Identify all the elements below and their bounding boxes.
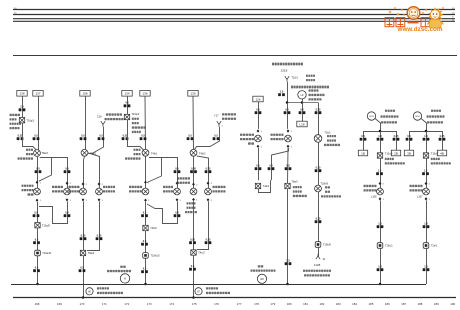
svg-text:2.5: 2.5 xyxy=(20,106,24,109)
connector T4b plug note (CJK) xyxy=(134,149,141,151)
wire T10b/10 to rail xyxy=(145,258,147,284)
svg-text:2B: 2B xyxy=(394,151,398,155)
wire T10c/7 to lamp xyxy=(426,158,428,188)
wire from box 138 xyxy=(22,96,24,117)
watermark sparkles xyxy=(388,6,445,16)
connector T10q plug location note (CJK) xyxy=(10,114,21,116)
svg-text:138: 138 xyxy=(19,92,24,96)
wire from box 126 xyxy=(258,102,260,129)
svg-text:126: 126 xyxy=(255,97,260,101)
svg-text:H: H xyxy=(124,277,126,281)
svg-text:0.5: 0.5 xyxy=(34,134,38,137)
rear right reading lamp L107 xyxy=(423,188,430,195)
wire junction to lamp row xyxy=(287,103,289,129)
svg-text:0.5: 0.5 xyxy=(214,134,218,137)
wire lamp W6 down xyxy=(37,202,39,223)
svg-text:0.35: 0.35 xyxy=(394,135,399,138)
svg-text:0.5: 0.5 xyxy=(80,266,84,269)
branch stub crossover C xyxy=(147,158,162,183)
svg-text:185: 185 xyxy=(369,302,374,306)
contact 2 above lamp L106 xyxy=(379,182,382,185)
drop wire F1 right xyxy=(396,131,398,150)
svg-text:0.35: 0.35 xyxy=(190,238,195,241)
bus wire 30 (top supply rail) xyxy=(13,9,455,11)
ground connection 86 circle xyxy=(86,288,93,295)
bottom frame line xyxy=(13,297,456,299)
svg-text:1.5: 1.5 xyxy=(424,135,428,138)
svg-text:1.5: 1.5 xyxy=(280,90,284,93)
drop wire F2 right xyxy=(442,131,444,150)
stub lamp L9 to bar xyxy=(302,99,304,103)
wire lamp W9 down xyxy=(83,201,85,250)
wire lamp W10 down xyxy=(145,202,147,226)
svg-text:0.35: 0.35 xyxy=(316,166,321,169)
lamp W12 upper note (CJK) xyxy=(177,177,190,179)
wire lamp W11 to main column xyxy=(147,201,178,223)
wire from box 136 xyxy=(144,96,147,149)
J128 note line1 (CJK) xyxy=(303,270,331,272)
svg-text:0.5: 0.5 xyxy=(256,164,260,167)
svg-text:T4b/3: T4b/3 xyxy=(199,152,206,155)
contact 1 above lamp W6 xyxy=(36,181,39,184)
svg-text:0.35: 0.35 xyxy=(206,238,211,241)
svg-text:0.5: 0.5 xyxy=(175,167,179,170)
svg-text:W14: W14 xyxy=(415,116,420,118)
terminal box 4B xyxy=(437,150,446,156)
svg-text:T16/1: T16/1 xyxy=(292,76,299,79)
switch F2 name text (CJK) xyxy=(103,186,115,188)
connector T10b/9 note (CJK) xyxy=(325,186,330,188)
connector T10c note (CJK) xyxy=(385,158,394,160)
wire switch F2 to T8a/4 xyxy=(87,201,100,250)
svg-text:178: 178 xyxy=(254,302,259,306)
wire T4c/3 to ground bus xyxy=(193,255,195,297)
junction dot 2 xyxy=(301,101,304,104)
lamp W3 note (CJK) xyxy=(258,265,264,267)
wire from box 137 xyxy=(38,96,40,150)
terminal box 3B xyxy=(404,150,413,156)
drop wire F2 mid xyxy=(426,131,428,153)
wire T10b/5 to open end xyxy=(318,247,320,256)
svg-text:T2e/1: T2e/1 xyxy=(431,245,438,248)
svg-text:T4a/1: T4a/1 xyxy=(263,185,270,188)
wire lamp L106 down xyxy=(380,201,382,243)
contact 2 above lamp W7 xyxy=(66,182,69,185)
svg-text:171: 171 xyxy=(102,302,107,306)
contact 2 above lamp W11 xyxy=(176,182,179,185)
drop wire F1 mid xyxy=(380,131,382,153)
svg-text:187: 187 xyxy=(401,302,406,306)
connector T10c/5 xyxy=(377,153,382,158)
junction on rail xyxy=(36,283,39,286)
svg-text:T10b/5: T10b/5 xyxy=(323,244,331,247)
svg-text:0.5: 0.5 xyxy=(65,167,69,170)
svg-text:182: 182 xyxy=(319,302,324,306)
wire F6 straight down xyxy=(287,148,290,183)
rear left reading lamp L106 xyxy=(377,188,384,195)
svg-text:175: 175 xyxy=(192,302,197,306)
front left door contact switch F2 xyxy=(96,188,103,195)
svg-text:0.5: 0.5 xyxy=(35,266,39,269)
wire from T10q/1 to T8a/2 xyxy=(23,123,37,150)
connector T10q/1 xyxy=(19,118,24,123)
svg-text:0.35: 0.35 xyxy=(440,135,445,138)
contact 1 below switch F6 xyxy=(287,145,290,148)
svg-text:177: 177 xyxy=(237,302,242,306)
connector T16 location note (CJK) xyxy=(291,86,329,89)
lamp L106 name (CJK) xyxy=(364,185,377,187)
svg-text:www.dzsc.com: www.dzsc.com xyxy=(397,26,443,33)
svg-text:186: 186 xyxy=(385,302,390,306)
wire fork from F6 xyxy=(272,148,289,180)
svg-text:T10c/5: T10c/5 xyxy=(385,152,393,155)
terminal box 1B xyxy=(358,150,367,156)
svg-text:1.5: 1.5 xyxy=(378,222,382,225)
svg-text:0.35: 0.35 xyxy=(97,234,102,237)
wire T10b/9 down xyxy=(318,192,320,242)
bus wire X xyxy=(13,18,455,20)
svg-text:3B: 3B xyxy=(407,151,411,155)
front left door warning lamp W6 xyxy=(34,188,41,195)
svg-text:4B: 4B xyxy=(440,151,444,155)
svg-text:T8a/2: T8a/2 xyxy=(42,152,49,155)
ground wire rail xyxy=(11,284,426,286)
svg-text:T10c/7: T10c/7 xyxy=(431,152,439,155)
terminal box 134 xyxy=(122,91,132,97)
contact 1 below lamp W7 xyxy=(66,198,69,201)
watermark mascot figure xyxy=(427,7,443,28)
contact 1 above switch F3 xyxy=(207,182,210,185)
servo motor V53 circle xyxy=(314,135,322,143)
distribution bar F1 xyxy=(363,131,396,133)
connector T10b/10 xyxy=(143,253,149,259)
luggage compartment switch F3 xyxy=(205,188,212,195)
svg-text:L106: L106 xyxy=(371,195,377,198)
contact 1 below lamp W12 xyxy=(192,198,195,201)
svg-text:T10a/5: T10a/5 xyxy=(42,224,50,227)
svg-text:W13: W13 xyxy=(369,116,374,118)
wire from T16/1 to junction xyxy=(287,82,289,103)
svg-text:0.35: 0.35 xyxy=(316,108,321,111)
svg-text:0.5: 0.5 xyxy=(81,134,85,137)
contact 1 above switch F5 xyxy=(257,129,260,132)
terminal box 139 xyxy=(188,91,198,97)
servo V53 note (CJK) xyxy=(327,135,336,137)
terminal box 2B xyxy=(391,150,400,156)
drop wire F1 left xyxy=(363,131,365,150)
svg-text:T10b/10: T10b/10 xyxy=(151,255,161,258)
svg-text:1.5: 1.5 xyxy=(424,169,428,172)
reading lamp unit W14 circle xyxy=(413,112,421,120)
wire T10c/1 to rail xyxy=(380,248,382,284)
track numbers xyxy=(35,302,456,306)
stub W13 to bar xyxy=(375,118,381,131)
control unit separator line xyxy=(13,55,457,57)
open connector T16/1 xyxy=(285,76,289,82)
contact 1 below switch F2 xyxy=(98,198,101,201)
svg-text:134: 134 xyxy=(124,92,129,96)
svg-text:T4b/2: T4b/2 xyxy=(150,227,157,230)
contact 1 below lamp L107 xyxy=(425,197,428,200)
connector T4b/2 xyxy=(143,225,148,230)
lamp L9 note (CJK) xyxy=(309,89,319,91)
bus wire 15 xyxy=(13,14,455,16)
interior light control unit title (CJK) xyxy=(272,63,303,66)
front door sill lamp W9 xyxy=(80,188,87,195)
wire T10a/5 to T10a/11 xyxy=(37,228,39,250)
J128 note line2 (CJK) xyxy=(304,274,330,276)
open connector C18 xyxy=(101,121,105,127)
svg-text:136: 136 xyxy=(142,92,147,96)
svg-text:183: 183 xyxy=(336,302,341,306)
svg-text:0.5: 0.5 xyxy=(141,134,145,137)
connector T4c/3 xyxy=(191,250,196,255)
lamp W7 name text (CJK) xyxy=(52,186,63,188)
wire T4b/2 to T10b/10 xyxy=(145,231,147,253)
branch stub crossover xyxy=(39,158,52,182)
rear right door lamp W12 xyxy=(190,188,197,195)
svg-text:0.5: 0.5 xyxy=(99,134,103,137)
svg-text:168: 168 xyxy=(35,302,40,306)
wire lamp W12 down xyxy=(193,201,195,250)
interior lamp L9 circle xyxy=(298,91,306,99)
svg-text:T4c/3: T4c/3 xyxy=(198,252,205,255)
svg-text:137: 137 xyxy=(35,92,40,96)
svg-text:0.5: 0.5 xyxy=(34,211,38,214)
svg-text:0.5: 0.5 xyxy=(191,265,195,268)
branch wire to lamp W11 xyxy=(149,158,178,189)
svg-text:0.35: 0.35 xyxy=(191,167,196,170)
wire T2e/1 to rail elbow xyxy=(426,248,428,284)
lamp H above rail circle xyxy=(120,274,129,283)
connection Y17 note (CJK) xyxy=(222,113,236,115)
connector T4a/1 xyxy=(255,183,260,188)
connector T16 colour note (CJK) xyxy=(306,75,315,77)
wire T10q/2 to T4b/1 xyxy=(128,120,144,150)
footwell light switch F6 xyxy=(285,135,292,142)
contact 2 above lamp W9 xyxy=(82,182,85,185)
svg-text:1.5: 1.5 xyxy=(424,265,428,268)
svg-text:L28: L28 xyxy=(299,122,304,126)
svg-text:173: 173 xyxy=(147,302,152,306)
box L28 xyxy=(297,121,307,127)
luggage light switch F5 xyxy=(255,135,262,142)
connector T10c/7 note (CJK) xyxy=(431,158,440,160)
lamp W6 name text (CJK) xyxy=(22,185,34,187)
connection C18 note (CJK) xyxy=(106,113,122,115)
junction dot 1 xyxy=(286,101,289,104)
lamp W9 name text (CJK) xyxy=(69,186,80,188)
svg-text:0.5: 0.5 xyxy=(269,164,273,167)
lamp L107 name (CJK) xyxy=(410,185,423,187)
reading lamp unit W13 circle xyxy=(367,112,375,120)
svg-text:0.5: 0.5 xyxy=(361,135,365,138)
contact 1 below lamp W9 xyxy=(82,198,85,201)
connector T10b/9 xyxy=(315,185,322,192)
connector T8a plug note (CJK) xyxy=(26,149,33,151)
connector T2e/1 xyxy=(423,243,429,249)
connector T8a/3 note (CJK) xyxy=(293,186,302,188)
connector T10b/5 xyxy=(315,242,321,248)
svg-text:J218: J218 xyxy=(281,68,288,72)
svg-text:4.0: 4.0 xyxy=(125,102,129,105)
ground connection 87 circle xyxy=(195,288,202,295)
wire T10a/11 to ground rail xyxy=(37,256,39,284)
svg-text:0.35: 0.35 xyxy=(206,167,211,170)
svg-text:0.5: 0.5 xyxy=(143,240,147,243)
svg-text:0.5: 0.5 xyxy=(143,267,147,270)
svg-text:190: 190 xyxy=(450,302,455,306)
svg-text:T10c/1: T10c/1 xyxy=(385,245,393,248)
contact 1 below switch F5 xyxy=(257,145,260,148)
svg-text:0.5: 0.5 xyxy=(143,211,147,214)
svg-text:179: 179 xyxy=(270,302,275,306)
junction on rail C xyxy=(144,283,147,286)
connector T10c/7 xyxy=(423,153,428,158)
rear left door warning lamp W10 xyxy=(142,188,149,195)
stub W14 to bar xyxy=(421,118,427,131)
contact 1 below lamp W10 xyxy=(144,199,147,202)
svg-text:1.5: 1.5 xyxy=(378,135,382,138)
svg-text:T4b/1: T4b/1 xyxy=(151,152,158,155)
wire lamp L107 down xyxy=(426,201,428,243)
lamp W14 note (CJK) xyxy=(431,110,441,112)
wire elbow to servo xyxy=(318,103,320,135)
svg-text:0.5: 0.5 xyxy=(188,134,192,137)
junction on ground bus xyxy=(82,296,85,299)
connector T10q/2 plug note (CJK) xyxy=(132,118,139,120)
svg-text:0.5: 0.5 xyxy=(65,211,69,214)
terminal box 138 xyxy=(17,91,27,97)
svg-text:158: 158 xyxy=(82,92,87,96)
ground connection 86 note (CJK) xyxy=(97,287,109,289)
svg-text:139: 139 xyxy=(190,92,195,96)
wire servo V53 to T10b/9 xyxy=(318,142,320,185)
wire junction to L28 xyxy=(302,103,304,122)
svg-text:1.5: 1.5 xyxy=(424,222,428,225)
contact 1 below lamp W6 xyxy=(36,199,39,202)
junction bar xyxy=(287,102,318,104)
svg-text:T1b/1: T1b/1 xyxy=(325,132,332,135)
contact 1 above switch F6 xyxy=(287,129,290,132)
luggage lamp W3 circle xyxy=(257,274,266,283)
wire switch F3 to T4c/3 xyxy=(197,201,209,249)
lamp W10 name text (CJK) xyxy=(129,186,142,188)
open connector to J128 xyxy=(316,254,320,259)
svg-text:0.35: 0.35 xyxy=(81,234,86,237)
svg-text:T10b/9: T10b/9 xyxy=(321,182,329,185)
svg-text:0.5: 0.5 xyxy=(286,164,290,167)
svg-text:T8a/4: T8a/4 xyxy=(88,252,95,255)
connector T10a/11 xyxy=(35,250,41,256)
wire T4b/1 down xyxy=(145,156,147,188)
svg-text:0.5: 0.5 xyxy=(256,108,260,111)
contact 1 above lamp W10 xyxy=(144,181,147,184)
svg-text:0.5: 0.5 xyxy=(36,167,40,170)
connector circle T8a/1 xyxy=(81,149,88,156)
wire T8a/1 right output xyxy=(88,153,100,188)
svg-text:1.5: 1.5 xyxy=(378,169,382,172)
svg-text:T10q/2: T10q/2 xyxy=(132,113,140,116)
drop wire F2 left xyxy=(409,131,411,150)
branch wire to door lamp W1 xyxy=(40,158,68,189)
connector T10q/2 xyxy=(124,114,129,119)
contact 2 above lamp L107 xyxy=(425,182,428,185)
connector T8a/2 xyxy=(34,150,41,157)
svg-text:174: 174 xyxy=(169,302,174,306)
svg-text:184: 184 xyxy=(352,302,357,306)
wire from Y17 to T4b/3 xyxy=(195,127,220,150)
svg-text:0.35: 0.35 xyxy=(316,217,321,220)
svg-text:C18: C18 xyxy=(97,116,102,119)
connector T10a/5 xyxy=(35,223,40,228)
bus wire 31 xyxy=(13,20,455,22)
svg-text:189: 189 xyxy=(434,302,439,306)
wire lamp W7 to T10a/5 xyxy=(39,201,68,223)
bar junction dot F2 xyxy=(425,130,428,133)
junction on rail E xyxy=(286,283,289,286)
svg-text:L107: L107 xyxy=(417,195,423,198)
contact 1 below lamp L106 xyxy=(379,197,382,200)
svg-text:T10a/11: T10a/11 xyxy=(42,252,52,255)
svg-text:T10q/1: T10q/1 xyxy=(27,119,35,122)
svg-text:169: 169 xyxy=(57,302,62,306)
svg-text:J128: J128 xyxy=(314,263,321,267)
terminal box 158 xyxy=(80,91,90,97)
terminal box 136 xyxy=(140,91,150,97)
terminal box 137 xyxy=(33,91,43,97)
wire from box 134 xyxy=(127,96,129,114)
connector T10c/1 xyxy=(377,243,383,249)
wire from box 139 xyxy=(192,96,195,149)
connector circle T4b/3 xyxy=(190,149,197,156)
svg-text:0.5: 0.5 xyxy=(285,108,289,111)
branch wire to switch F3 xyxy=(197,156,209,188)
wire T4b/3 down xyxy=(193,156,195,188)
wire T8a/1 left output xyxy=(84,156,85,188)
ground connection 87 note (CJK) xyxy=(206,287,218,289)
lamp H note (CJK) xyxy=(120,266,125,268)
svg-text:0.5: 0.5 xyxy=(407,135,411,138)
wire T10c/5 to lamp xyxy=(380,158,382,188)
open connector Y17 xyxy=(217,121,221,127)
connector T8a/4 xyxy=(80,250,85,255)
switch F6 name text (CJK) xyxy=(271,134,284,136)
svg-text:180: 180 xyxy=(287,302,292,306)
bus labels right ends xyxy=(452,8,455,22)
svg-text:170: 170 xyxy=(79,302,84,306)
svg-text:0.5: 0.5 xyxy=(175,211,179,214)
lamp W11 name text (CJK) xyxy=(163,186,173,188)
watermark characters weiku yixia xyxy=(385,18,430,27)
svg-text:1B: 1B xyxy=(361,151,365,155)
front left door entry lamp W7 xyxy=(64,188,71,195)
svg-text:0.5: 0.5 xyxy=(300,108,304,111)
rear left door entry lamp W11 xyxy=(174,188,181,195)
junction on ground bus D xyxy=(192,296,195,299)
connector T8a/3 xyxy=(285,183,290,188)
svg-text:Y17: Y17 xyxy=(214,114,219,117)
svg-text:0.5: 0.5 xyxy=(35,238,39,241)
connector circle T4b/1 xyxy=(142,149,149,156)
svg-text:T8a/3: T8a/3 xyxy=(292,181,299,184)
contact 1 below lamp W11 xyxy=(176,198,179,201)
svg-text:1.5: 1.5 xyxy=(286,259,290,262)
wire T8a/2 down xyxy=(37,156,39,188)
lamp W12 lower note (CJK) xyxy=(187,202,196,204)
wire T8a/4 to ground bus xyxy=(83,256,85,298)
junction on rail F1 xyxy=(379,283,382,286)
